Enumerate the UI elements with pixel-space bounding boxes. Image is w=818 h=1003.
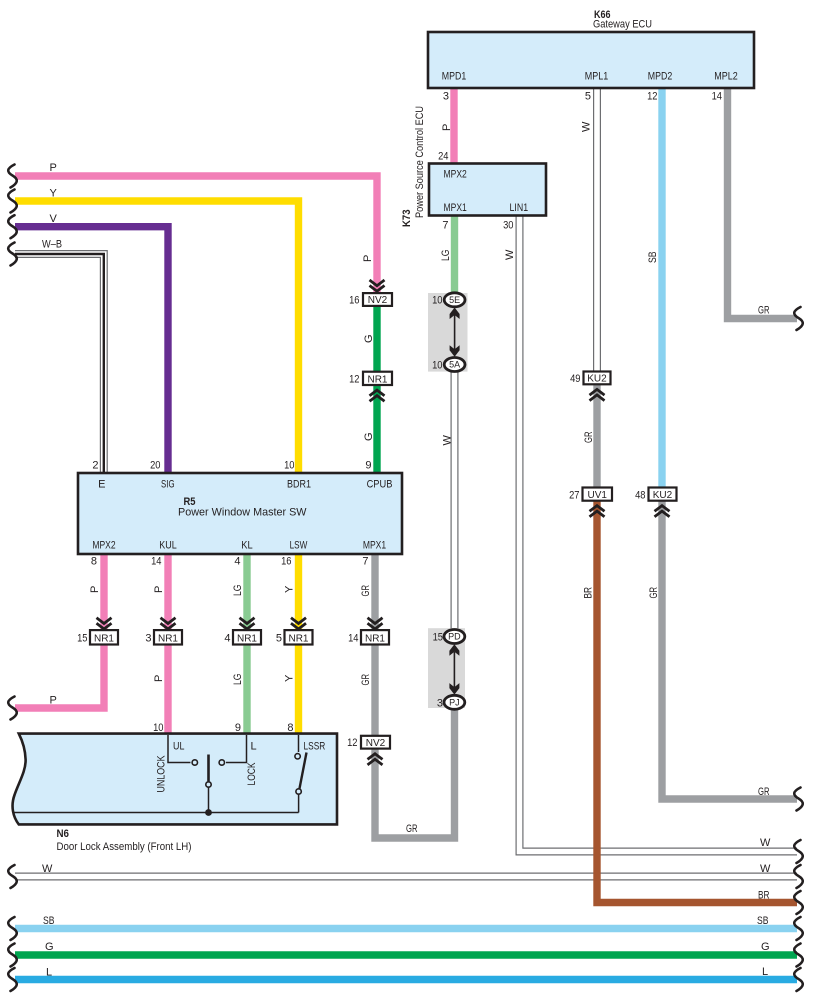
- svg-text:LG: LG: [232, 585, 244, 597]
- svg-text:MPL1: MPL1: [585, 71, 609, 83]
- svg-text:P: P: [153, 675, 165, 682]
- svg-text:2: 2: [92, 460, 98, 472]
- svg-text:10: 10: [432, 360, 442, 372]
- svg-text:10: 10: [432, 295, 442, 307]
- arrow chevrons out of KU2 (pin49): [590, 389, 605, 400]
- wire L (blue) bottom horizontal: [15, 976, 797, 983]
- pin numbers R5 bottom: [91, 556, 369, 568]
- svg-text:8: 8: [287, 722, 293, 734]
- arrow chevrons into NV2 (pin16): [370, 280, 385, 291]
- svg-text:MPL2: MPL2: [714, 71, 738, 83]
- break squiggle W long left: [8, 865, 17, 888]
- wire LG (light green) R5 pin KL down to N6 pin L: [243, 553, 250, 734]
- svg-text:3: 3: [437, 698, 443, 710]
- wire P (pink) R5 pin MPX2 down through NR1 left to break: [15, 553, 104, 708]
- wire W (white) K66 MPL1 pin5 to KU2 connector: [593, 87, 601, 373]
- svg-text:W: W: [42, 863, 53, 875]
- wire W (white) connector 5A to connector PD: [451, 370, 459, 631]
- svg-text:G: G: [45, 941, 54, 953]
- svg-text:LSW: LSW: [290, 540, 308, 552]
- wire SB (sky blue) K66 MPD2 pin12 to KU2 connector: [658, 87, 665, 489]
- arrow chevrons into NR1 row: [97, 618, 383, 629]
- svg-text:MPX2: MPX2: [92, 540, 115, 552]
- N6 pin L lead and contact: [219, 735, 257, 765]
- svg-text:NV2: NV2: [366, 738, 386, 749]
- arrow chevrons out of UV1 (pin27): [590, 506, 605, 517]
- break squiggle G right: [794, 944, 803, 967]
- break squiggle P left: [8, 165, 17, 188]
- wire Y (yellow) R5 pin LSW down to N6 pin LSSR: [295, 553, 302, 734]
- break squiggle G left: [8, 944, 17, 967]
- svg-text:4: 4: [234, 556, 240, 568]
- svg-text:20: 20: [150, 460, 160, 472]
- svg-text:CPUB: CPUB: [367, 479, 393, 491]
- svg-text:NR1: NR1: [367, 374, 387, 385]
- svg-text:PD: PD: [448, 632, 461, 642]
- svg-text:L: L: [46, 967, 52, 979]
- N6 lock switch blade (center): [206, 755, 211, 813]
- assembly N6 Door Lock Assembly (Front LH): [13, 734, 337, 853]
- svg-text:14: 14: [712, 91, 722, 103]
- svg-text:NR1: NR1: [94, 633, 114, 644]
- break squiggle GR right (MPL2): [794, 307, 803, 330]
- svg-text:GR: GR: [360, 585, 372, 597]
- svg-text:Gateway ECU: Gateway ECU: [593, 19, 652, 31]
- connector 14 NR1: [348, 630, 389, 644]
- svg-text:SB: SB: [43, 915, 55, 927]
- connector 3 NR1: [145, 630, 182, 644]
- break squiggle SB left: [8, 917, 17, 940]
- connector 3 PJ: [437, 695, 465, 709]
- wire SB (sky blue) bottom horizontal: [15, 925, 797, 932]
- connector 12 NV2 (lower): [347, 736, 390, 749]
- break squiggle L right: [794, 968, 803, 991]
- svg-text:15: 15: [77, 633, 87, 645]
- svg-text:P: P: [50, 695, 57, 707]
- svg-text:48: 48: [635, 490, 645, 502]
- break squiggle L left: [8, 968, 17, 991]
- svg-text:LIN1: LIN1: [510, 202, 529, 214]
- svg-text:Door Lock Assembly (Front LH): Door Lock Assembly (Front LH): [57, 841, 192, 853]
- break squiggle GR right (lower): [794, 788, 803, 811]
- svg-text:MPD1: MPD1: [442, 71, 467, 83]
- svg-text:BDR1: BDR1: [287, 479, 311, 491]
- svg-text:10: 10: [153, 722, 163, 734]
- wire G (green) bottom horizontal: [15, 951, 797, 958]
- arrow chevrons out of NV2 (pin12): [368, 754, 383, 765]
- svg-text:SB: SB: [647, 252, 659, 264]
- N6 pin UL lead and contact: [168, 735, 198, 765]
- svg-text:24: 24: [438, 151, 448, 163]
- svg-text:GR: GR: [583, 431, 595, 443]
- svg-text:P: P: [153, 586, 165, 593]
- svg-text:MPX1: MPX1: [444, 202, 467, 214]
- svg-text:Power Window Master SW: Power Window Master SW: [178, 507, 307, 519]
- connector 49 KU2: [570, 372, 610, 386]
- wire Y (yellow) from left break to R5 pin BDR1: [15, 201, 299, 474]
- svg-text:P: P: [89, 586, 101, 593]
- wire G (green) NV2 to NR1 to R5 pin CPUB: [373, 304, 380, 474]
- svg-text:W: W: [581, 121, 593, 132]
- svg-text:GR: GR: [758, 305, 770, 317]
- svg-text:8: 8: [91, 556, 97, 568]
- svg-text:14: 14: [151, 556, 161, 568]
- svg-text:UV1: UV1: [587, 490, 607, 501]
- pin numbers N6: [153, 722, 293, 734]
- wire GR (gray) KU2 connector down and right to break: [662, 500, 797, 799]
- wire P (pink) K66 MPD1 pin3 to K73 MPX2 pin24: [450, 87, 457, 165]
- svg-text:NR1: NR1: [158, 633, 178, 644]
- connector 10 5A: [432, 358, 465, 372]
- svg-text:Y: Y: [50, 188, 58, 200]
- wire LG (light green) K73 MPX1 pin7 to connector 5E: [451, 215, 458, 296]
- break squiggle W right (long): [794, 865, 803, 888]
- svg-text:NR1: NR1: [365, 633, 385, 644]
- svg-text:GR: GR: [360, 674, 372, 686]
- svg-text:L: L: [251, 741, 257, 753]
- svg-text:KL: KL: [241, 540, 252, 552]
- svg-text:P: P: [362, 255, 374, 262]
- svg-text:27: 27: [569, 490, 579, 502]
- svg-text:V: V: [50, 213, 58, 225]
- connector 12 NR1: [349, 372, 392, 386]
- N6 switch common line: [14, 812, 299, 814]
- connector shade block PD/PJ: [428, 628, 465, 708]
- svg-text:GR: GR: [758, 786, 770, 798]
- svg-text:KUL: KUL: [159, 540, 177, 552]
- svg-text:12: 12: [349, 374, 359, 386]
- svg-text:L: L: [762, 966, 768, 978]
- svg-text:P: P: [441, 124, 453, 131]
- wire W-B (white-black) from left break to R5 pin E: [15, 254, 104, 474]
- break squiggle V left: [8, 215, 17, 238]
- svg-text:7: 7: [362, 556, 368, 568]
- svg-text:UL: UL: [173, 741, 184, 753]
- svg-text:5A: 5A: [449, 360, 460, 370]
- svg-text:MPD2: MPD2: [648, 71, 673, 83]
- break squiggle BR right: [794, 891, 803, 914]
- svg-text:E: E: [98, 479, 105, 491]
- svg-text:G: G: [761, 941, 770, 953]
- svg-text:SIG: SIG: [161, 479, 175, 491]
- svg-text:5E: 5E: [449, 295, 460, 305]
- svg-text:LG: LG: [440, 250, 452, 262]
- connector 4 NR1: [224, 630, 261, 644]
- pin numbers K73: [438, 151, 513, 232]
- junction arrow between PD and PJ: [449, 644, 459, 694]
- connector 10 5E: [432, 293, 465, 307]
- svg-text:LG: LG: [232, 674, 244, 686]
- svg-text:NR1: NR1: [237, 633, 257, 644]
- switch R5 Power Window Master SW: [78, 473, 402, 554]
- svg-text:NR1: NR1: [288, 633, 308, 644]
- svg-text:5: 5: [585, 91, 591, 103]
- connector 5 NR1: [276, 630, 313, 644]
- svg-text:Y: Y: [284, 674, 296, 682]
- wire W (white) K73 LIN1 pin30 down and right to break: [520, 215, 798, 852]
- svg-text:30: 30: [503, 220, 513, 232]
- wire GR (gray) K66 MPL2 pin14 down and right to break: [728, 87, 798, 319]
- ECU K73 Power Source Control ECU: [401, 106, 546, 227]
- connector 48 KU2: [635, 488, 676, 502]
- svg-text:K73: K73: [401, 210, 413, 228]
- svg-text:12: 12: [347, 737, 357, 749]
- svg-text:W: W: [760, 837, 771, 849]
- svg-text:12: 12: [647, 91, 657, 103]
- svg-text:W: W: [442, 435, 454, 446]
- pin numbers R5 top: [92, 460, 371, 472]
- connector 15 PD: [433, 630, 465, 644]
- svg-text:3: 3: [145, 633, 151, 645]
- svg-text:W: W: [760, 863, 771, 875]
- svg-text:MPX1: MPX1: [363, 540, 386, 552]
- pin numbers K66: [443, 91, 722, 103]
- break squiggle SB right: [794, 917, 803, 940]
- break squiggle P lower left: [8, 697, 17, 720]
- svg-text:NV2: NV2: [368, 295, 388, 306]
- svg-text:4: 4: [224, 633, 230, 645]
- svg-text:9: 9: [235, 722, 241, 734]
- svg-text:MPX2: MPX2: [444, 169, 467, 181]
- wire GR (gray) connector PJ down, left, up to NV2 connector: [375, 708, 455, 838]
- wire GR (gray) R5 pin MPX1 down to NV2 connector: [371, 553, 378, 737]
- svg-text:W–B: W–B: [42, 239, 62, 251]
- wire V (violet) from left break to R5 pin SIG: [15, 227, 168, 474]
- svg-text:3: 3: [443, 91, 449, 103]
- ECU K66 Gateway ECU: [428, 9, 754, 88]
- svg-text:BR: BR: [758, 890, 770, 902]
- break squiggle W right (LIN1): [794, 840, 803, 863]
- svg-text:15: 15: [433, 632, 443, 644]
- connector 27 UV1: [569, 488, 612, 502]
- svg-text:GR: GR: [406, 823, 418, 835]
- svg-text:KU2: KU2: [653, 490, 673, 501]
- wire P (pink) R5 pin KUL down to N6 pin UL: [164, 553, 171, 734]
- wire P (pink) from left break to NV2 connector column: [15, 176, 377, 294]
- svg-text:G: G: [363, 334, 375, 343]
- svg-text:49: 49: [570, 373, 580, 385]
- N6 pin LSSR lead, switch blade and contacts: [295, 735, 325, 813]
- svg-text:P: P: [50, 162, 57, 174]
- wire W (white) long horizontal from left break to right break: [15, 873, 797, 881]
- junction arrow between 5E and 5A: [450, 308, 460, 357]
- arrow chevrons out of NR1 (pin12): [370, 390, 385, 401]
- svg-text:LSSR: LSSR: [304, 741, 326, 753]
- N6 junction dot: [205, 809, 212, 816]
- svg-text:KU2: KU2: [587, 374, 607, 385]
- connector shade block 5E/5A: [428, 293, 468, 372]
- wire BR (brown) UV1 connector down and right to break: [597, 500, 797, 903]
- svg-text:9: 9: [365, 460, 371, 472]
- svg-text:Y: Y: [284, 585, 296, 593]
- svg-text:5: 5: [276, 633, 282, 645]
- connector 15 NR1: [77, 630, 118, 644]
- svg-text:16: 16: [349, 295, 359, 307]
- arrow chevrons out of KU2 (pin48): [655, 506, 670, 517]
- svg-text:N6: N6: [57, 828, 70, 840]
- svg-text:LOCK: LOCK: [246, 762, 258, 785]
- svg-text:Power Source Control ECU: Power Source Control ECU: [414, 106, 426, 218]
- svg-text:10: 10: [284, 460, 294, 472]
- wire GR (gray) KU2 to UV1 connector: [593, 383, 600, 489]
- svg-text:GR: GR: [648, 587, 660, 599]
- break squiggle Y left: [8, 190, 17, 213]
- svg-text:UNLOCK: UNLOCK: [156, 755, 168, 793]
- svg-text:7: 7: [442, 220, 448, 232]
- svg-text:G: G: [363, 432, 375, 441]
- connector 16 NV2: [349, 293, 392, 306]
- svg-text:BR: BR: [583, 587, 595, 599]
- break squiggle W-B left: [8, 243, 17, 266]
- svg-text:W: W: [504, 249, 516, 260]
- svg-text:PJ: PJ: [449, 698, 460, 708]
- svg-text:14: 14: [348, 633, 358, 645]
- svg-text:SB: SB: [757, 915, 769, 927]
- svg-text:16: 16: [281, 556, 291, 568]
